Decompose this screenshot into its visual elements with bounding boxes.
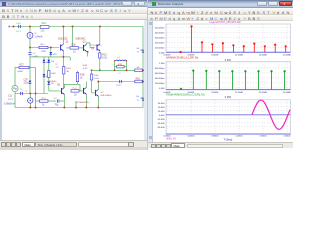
svg-text:2N3403C: 2N3403C [47,81,57,83]
svg-text:C2F: C2F [24,79,29,81]
Q9 collector wire [99,27,101,45]
svg-text:Q5: Q5 [57,84,61,86]
svg-text:220u: 220u [24,82,30,84]
capacitor C10 [119,80,121,83]
svg-text:D3: D3 [51,61,55,63]
transistor Q1 [60,45,62,51]
wire zobel row y81 [98,81,143,83]
capacitor C11 [20,92,22,95]
svg-text:R26: R26 [51,73,56,75]
node dots top rail [13,26,15,28]
caption buttons [257,1,267,6]
battery V1b [141,97,146,99]
wire top rail [11,26,143,28]
current source I3 [29,27,31,33]
Q1 collector wire [62,27,64,45]
wire mid rail y56.4 [30,56,63,58]
svg-text:V4: V4 [137,52,141,54]
svg-text:2m: 2m [53,54,56,56]
svg-text:R10: R10 [136,78,141,80]
resistor R20 mid [77,82,79,85]
Q8 emitter wire [97,96,99,107]
svg-text:R24: R24 [94,75,99,77]
wire v x70.5 [72,27,74,48]
left window right border strip [144,20,147,140]
app icon [2,2,6,6]
chart pane transient [166,100,291,134]
battery V4 [141,49,146,51]
svg-text:3.39k00mH: 3.39k00mH [4,103,16,105]
resistor R19 [62,57,64,67]
svg-text:C11: C11 [8,95,13,97]
Q5 collector jog [63,84,65,87]
resistor R13 [40,100,49,102]
resistor RL [135,69,142,72]
zero baseline blue [166,114,291,116]
svg-text:V1: V1 [20,89,24,91]
capacitor column x28 lower [29,55,31,94]
plot client area [148,21,293,142]
svg-text:0.33: 0.33 [83,68,88,70]
source V1 sine [14,68,16,86]
red stems [180,51,182,53]
svg-text:R31: R31 [73,88,78,90]
svg-text:Q8: Q8 [101,92,105,94]
svg-text:C8: C8 [54,98,58,100]
diode D3 [50,48,52,52]
toolbar row 1 [148,8,293,15]
svg-text:1.64mA: 1.64mA [35,35,43,38]
Q8 collector wire [97,82,99,90]
node In terminal [9,25,11,27]
svg-text:1k: 1k [80,77,83,79]
wire row y100.5 [36,100,40,102]
Q6 emitter wire [85,94,87,107]
svg-text:10: 10 [73,51,76,53]
capacitor C12 [18,25,20,28]
svg-text:220n: 220n [8,99,14,101]
svg-text:V1: V1 [137,100,141,102]
svg-text:R13: R13 [42,98,47,100]
Q5 emitter [63,94,65,107]
resistor R27 [19,66,29,68]
Q3 collector to Q9 base [85,43,87,45]
svg-text:70p: 70p [55,104,60,106]
svg-text:230: 230 [41,30,46,32]
svg-text:Q6 MJE350C: Q6 MJE350C [76,102,90,104]
svg-text:I3: I3 [35,33,38,35]
capacitor C7 [28,52,31,54]
green stems [180,88,182,91]
svg-text:R17: R17 [41,44,46,46]
svg-text:MJL1000C: MJL1000C [101,95,112,97]
resistor R6A [40,26,49,29]
svg-text:10: 10 [74,94,77,96]
svg-text:R23: R23 [102,54,107,56]
svg-text:R30: R30 [72,44,77,46]
wire input row y93 [15,93,48,95]
svg-text:R1B: R1B [80,74,85,76]
svg-text:Q1: Q1 [66,41,70,43]
svg-text:2N3303C: 2N3303C [58,38,68,40]
Q9 emitter + resistor R23 [99,51,101,53]
svg-text:R33: R33 [83,65,88,67]
left window title bar [0,0,147,7]
svg-text:D7: D7 [56,64,60,66]
svg-text:9-88: 9-88 [41,51,46,53]
toolbar row 2 [0,14,147,21]
svg-text:C7: C7 [33,53,37,55]
left scrollbar of plot window [148,21,153,142]
wire output row y69.8 [92,69,143,71]
svg-text:0.33: 0.33 [94,78,99,80]
magenta sine V(RL) [252,100,290,129]
resistor R31 [71,90,79,92]
resistor R45 [117,66,124,68]
svg-text:R45: R45 [118,64,123,66]
svg-text:1.7: 1.7 [118,73,122,75]
chart pane harmonic amplitude [166,24,291,52]
schematic client area [0,20,147,140]
resistor R17 [39,46,48,48]
svg-text:1k: 1k [42,104,45,106]
svg-text:1N: 1N [56,67,59,69]
Q3 emitter [85,50,87,52]
diode + resistor column x46.8 [48,57,50,71]
capacitor C8 [56,99,58,102]
title text [8,2,129,6]
chart pane THD [166,62,291,90]
svg-text:43: 43 [137,48,140,50]
svg-text:220u: 220u [16,31,22,33]
wire right supply rail [142,27,144,108]
svg-text:1n: 1n [51,83,54,85]
svg-text:100n: 100n [116,85,122,87]
wire bottom rail [15,107,143,109]
wire base row y47 [30,47,59,49]
toolbar row 1 [0,7,147,14]
svg-text:0.20: 0.20 [102,57,107,59]
svg-text:R19: R19 [66,68,71,70]
source I1 [29,94,31,98]
svg-text:R27: R27 [20,64,25,66]
resistor R24 [91,69,93,71]
caption buttons [122,1,132,6]
wire v x33.5 [35,68,37,108]
resistor R10 [135,80,142,83]
plots svg overlays whole page coords [0,0,292,150]
svg-text:3k: 3k [66,71,69,73]
svg-text:200k: 200k [18,71,24,73]
Q1 emitter wire [62,51,64,57]
bottom tab bar [0,140,147,147]
svg-text:Q3: Q3 [83,41,87,43]
toolbar row 2 [148,15,293,22]
svg-text:Q9: Q9 [91,48,95,50]
svg-text:D: D [26,91,28,93]
svg-text:d1: d1 [137,96,140,98]
svg-text:C12: C12 [17,23,22,25]
svg-text:L1: L1 [117,57,120,59]
Q6 collector wire [85,82,87,88]
svg-text:R6A: R6A [42,22,47,25]
bottom tab bar [148,142,293,149]
right window title bar [148,0,293,8]
diode pair column x42 [43,57,45,94]
svg-text:MJE340C: MJE340C [76,38,86,40]
svg-text:MJL2083C: MJL2083C [91,45,102,47]
